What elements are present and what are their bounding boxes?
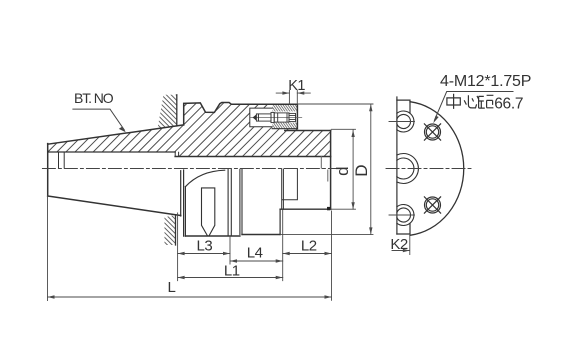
bottom drive slot: [397, 224, 410, 235]
dim K2: [392, 236, 410, 255]
spindle block edge upper: [176, 95, 178, 126]
screw pocket white cutout: [250, 105, 298, 129]
dim L1: [178, 277, 283, 279]
bore step right end: [321, 157, 328, 182]
spindle block hatch lower: [165, 215, 176, 245]
taper shank top edge: [48, 125, 184, 144]
main hatched section upper half: [48, 103, 331, 157]
flange outer arc: [410, 102, 464, 236]
dim L3: [178, 253, 230, 255]
svg-text:L2: L2: [301, 237, 317, 254]
small cylinder bottom edge: [280, 208, 331, 210]
shank left end face: [47, 144, 49, 196]
M12 hole SE: [424, 197, 440, 213]
nut bottom edge: [185, 235, 240, 237]
end view centerline: [386, 168, 473, 170]
dim K1 extension lines: [289, 91, 297, 105]
svg-text:L1: L1: [224, 263, 240, 280]
set screw centerline: [251, 117, 302, 119]
set screw body: [256, 112, 295, 122]
screw boss bottom edge: [272, 128, 297, 130]
flange face silhouette lower: [180, 171, 182, 216]
M12 leader line: [434, 92, 513, 121]
spindle block hatch upper: [158, 95, 177, 129]
svg-text:BT. NO: BT. NO: [74, 90, 114, 106]
thread hatch band below screw: [272, 123, 297, 129]
set screw tip: [253, 114, 257, 120]
dim K1 line and arrows: [276, 92, 310, 94]
step face: [279, 209, 281, 234]
center pilot arcs: [397, 154, 419, 184]
nut left faces lower: [184, 170, 186, 236]
step detail lines: [282, 169, 298, 209]
pull stud thread relief verticals: [59, 152, 65, 168]
thread hatch band above screw: [272, 105, 297, 112]
main centerline: [42, 168, 339, 170]
bottom hole arcs: [397, 205, 414, 226]
svg-text:d: d: [333, 166, 352, 175]
pocket edges: [250, 108, 272, 127]
dim D extension lines: [281, 104, 374, 234]
M12 hole NE: [424, 124, 440, 140]
svg-text:66.7: 66.7: [494, 96, 523, 113]
dim L2: [283, 253, 332, 255]
flange and body top profile: [184, 103, 298, 129]
top drive slot: [397, 100, 410, 113]
中: [447, 94, 460, 109]
svg-text:4-M12*1.75P: 4-M12*1.75P: [440, 73, 531, 90]
lower dims extension lines: [48, 196, 332, 301]
break line: [396, 97, 398, 234]
svg-text:D: D: [352, 165, 371, 177]
dim d extension lines: [331, 129, 356, 209]
bore line left: [48, 151, 176, 153]
bore step: [175, 152, 178, 157]
dim L4: [230, 260, 283, 262]
hole center ticks: [389, 122, 415, 216]
body right end face: [330, 131, 332, 210]
心: [464, 95, 478, 108]
nut back fillet curve: [185, 170, 224, 187]
big cylinder bottom edge: [242, 234, 280, 236]
nut right face lines: [228, 169, 242, 236]
label 中心距 (hand-drawn glyphs) + 66.7: [447, 94, 494, 109]
dim d line and arrows: [352, 130, 354, 209]
svg-text:L3: L3: [197, 237, 213, 254]
dim L: [48, 296, 332, 298]
spindle block edge lower: [175, 215, 177, 245]
BT. NO leader: [73, 109, 125, 130]
dim D line and arrows: [370, 104, 372, 234]
svg-text:L4: L4: [247, 245, 263, 262]
nut groove: [202, 188, 215, 236]
svg-text:K2: K2: [390, 236, 408, 253]
top hole arcs: [397, 111, 414, 132]
bore line main: [175, 156, 330, 158]
距: [479, 95, 494, 108]
taper shank bottom edge: [48, 196, 181, 216]
corner dot: [327, 207, 330, 210]
svg-text:K1: K1: [288, 78, 305, 94]
svg-text:L: L: [168, 279, 176, 296]
body top edge right section: [285, 130, 331, 132]
